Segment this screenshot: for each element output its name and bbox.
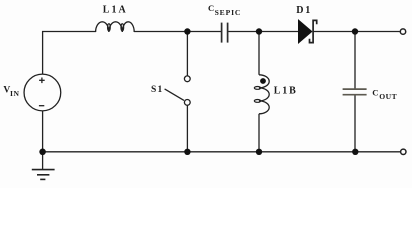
voltage source VIN xyxy=(24,74,61,111)
label C_SEPIC xyxy=(208,3,241,17)
svg-text:C: C xyxy=(208,3,214,13)
svg-text:S1: S1 xyxy=(151,85,163,95)
output terminal (-) xyxy=(401,149,406,154)
wire: Vin top to L1A (top-left corner) xyxy=(43,32,96,75)
polarity dot of L1B xyxy=(260,78,266,84)
inductor L1A xyxy=(96,22,135,32)
wire: D1 cathode to output terminal xyxy=(314,31,401,33)
svg-text:L1B: L1B xyxy=(274,86,298,97)
wire: S1 lower terminal to bottom rail xyxy=(186,105,188,152)
wire: L1B bottom to bottom rail xyxy=(258,114,260,152)
wire: L1A to C_SEPIC xyxy=(134,31,221,33)
junction: S1 / top rail xyxy=(184,28,190,34)
output terminal (+) xyxy=(400,29,405,34)
wire: C_SEPIC to D1 anode xyxy=(228,31,299,33)
svg-text:OUT: OUT xyxy=(379,92,397,101)
ground xyxy=(32,170,55,180)
wire: C_OUT bottom plate to bottom rail xyxy=(354,95,356,152)
wire: top rail to C_OUT top plate xyxy=(354,32,356,89)
wire: bottom rail xyxy=(43,151,401,153)
label VIN xyxy=(3,86,19,99)
wire: ground stub xyxy=(42,152,44,170)
inductor L1B xyxy=(254,75,269,114)
svg-text:C: C xyxy=(372,88,378,98)
svg-text:IN: IN xyxy=(10,89,20,98)
junction: Vin / bottom rail xyxy=(39,149,46,156)
junction: S1 / bottom rail xyxy=(184,149,190,155)
diode D1 (Schottky) xyxy=(299,20,317,43)
svg-text:L1A: L1A xyxy=(103,5,128,16)
switch S1 xyxy=(165,76,191,105)
wire: top rail to S1 upper terminal xyxy=(186,32,188,76)
junction: L1B / top rail xyxy=(256,28,262,34)
capacitor C_SEPIC xyxy=(222,23,228,43)
wire: top rail to L1B top xyxy=(258,32,260,75)
label C_OUT xyxy=(372,88,397,101)
junction: C_OUT / top rail xyxy=(352,28,358,34)
junction: L1B / bottom rail xyxy=(256,149,262,155)
svg-text:SEPIC: SEPIC xyxy=(215,8,242,17)
junction: C_OUT / bottom rail xyxy=(352,149,358,155)
capacitor C_OUT xyxy=(343,89,367,95)
svg-text:D1: D1 xyxy=(296,5,312,16)
wire: Vin bottom to bottom rail xyxy=(42,111,44,152)
